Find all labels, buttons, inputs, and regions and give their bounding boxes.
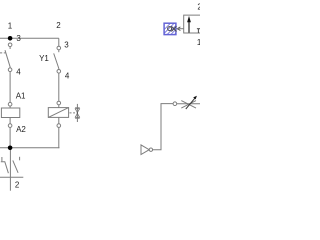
svg-text:2: 2: [56, 21, 61, 30]
contact table NO glyph: [19, 157, 21, 161]
wire solenoid to bottom rail: [58, 127, 60, 147]
relay contact blade: [54, 53, 59, 69]
relay contact pin 3: [57, 46, 61, 50]
wire air supply to throttle: [153, 104, 174, 150]
solenoid-valve dashed link: [70, 112, 76, 114]
pushbutton contact S1 pin 4: [8, 68, 12, 72]
valve closed port T: [197, 28, 200, 30]
relay contact pin 4: [57, 70, 61, 74]
svg-text:4: 4: [65, 72, 70, 81]
pushbutton contact S1 pin 3: [8, 43, 12, 47]
svg-text:4: 4: [16, 68, 21, 77]
node 1 junction: [8, 36, 13, 41]
svg-text:2: 2: [197, 2, 200, 11]
valve actuator glyph: [168, 27, 172, 31]
relay coil K1: [1, 108, 19, 118]
svg-text:Y1: Y1: [39, 54, 49, 63]
valve cross-reference icon: [76, 104, 78, 122]
solenoid Y1 coil: [48, 108, 68, 118]
contact table NC glyph: [1, 157, 3, 161]
solenoid pin bottom: [57, 124, 61, 128]
svg-text:A2: A2: [16, 125, 26, 134]
selection highlight square: [164, 23, 176, 34]
svg-text:3: 3: [64, 41, 69, 50]
valve flow arrow: [188, 21, 190, 33]
relay coil pin A2: [8, 124, 12, 128]
wire node to throttle: [177, 103, 200, 105]
wire contact to solenoid: [58, 73, 60, 101]
wire branch2 drop: [58, 38, 60, 46]
wire bottom rail: [0, 147, 59, 149]
throttle adjust arrow: [186, 98, 196, 109]
actuator link arrow: [177, 27, 180, 31]
valve U1 body: [184, 15, 200, 33]
svg-text:1: 1: [8, 22, 13, 31]
pushbutton actuator dashed link: [0, 52, 5, 54]
svg-text:A1: A1: [16, 92, 26, 101]
contact table stem: [9, 150, 11, 191]
wire top rail: [0, 37, 59, 39]
svg-text:3: 3: [16, 34, 21, 43]
throttle valve body: [181, 101, 196, 109]
contact table baseline: [0, 176, 23, 178]
svg-text:1: 1: [197, 38, 200, 47]
svg-text:2: 2: [15, 180, 20, 189]
pushbutton blade: [5, 50, 10, 68]
wire contact to coil: [9, 72, 11, 103]
node bottom junction: [8, 146, 13, 151]
solenoid pin top: [57, 101, 61, 105]
node pneumatic connection: [173, 102, 177, 106]
relay coil pin A1: [8, 102, 12, 106]
wire coil to bottom rail: [9, 127, 11, 147]
compressed air supply: [141, 145, 149, 155]
